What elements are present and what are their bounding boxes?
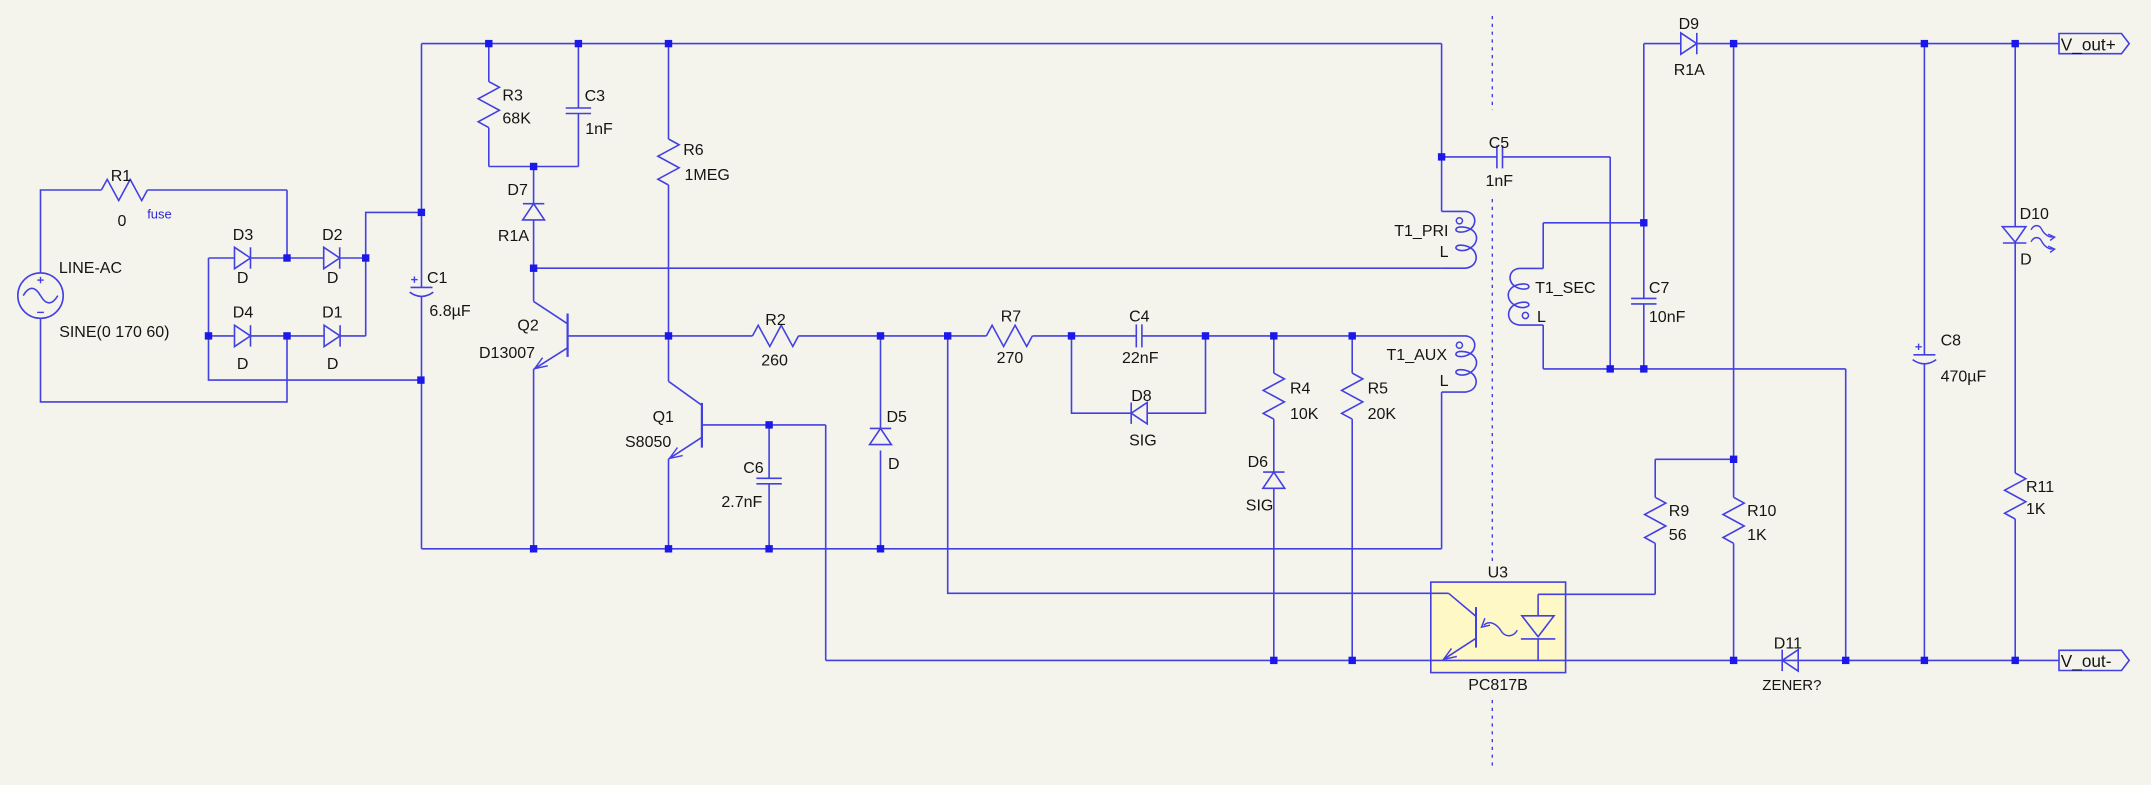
label LINE-AC bbox=[59, 260, 122, 277]
svg-text:1nF: 1nF bbox=[585, 121, 613, 138]
wire bridge bottom row bbox=[209, 335, 366, 337]
svg-text:1K: 1K bbox=[1747, 527, 1767, 544]
optocoupler U3 (PC817B) bbox=[1443, 593, 1555, 660]
label T1_AUX bbox=[1387, 347, 1448, 364]
wire C6 leads bbox=[768, 425, 770, 549]
wire Q1 emitter to ground bus bbox=[668, 459, 670, 549]
label R6 bbox=[683, 142, 704, 159]
svg-text:D10: D10 bbox=[2020, 206, 2049, 223]
label R3 value 68K bbox=[502, 111, 531, 128]
svg-text:22nF: 22nF bbox=[1122, 350, 1159, 367]
svg-text:R6: R6 bbox=[683, 142, 704, 159]
diode D1 bbox=[324, 325, 340, 346]
label R10 bbox=[1747, 503, 1776, 520]
inductor T1_AUX (aux winding) bbox=[1442, 336, 1477, 392]
wire feedback rail to V_out- bbox=[826, 659, 2059, 661]
diode D4 bbox=[235, 325, 251, 346]
wire C1 column bbox=[421, 44, 423, 549]
label D5 bbox=[887, 409, 908, 426]
wire R3 leads and R3/C3 bottom row bbox=[489, 44, 579, 167]
wire C3 leads bbox=[577, 44, 579, 167]
svg-text:SIG: SIG bbox=[1129, 433, 1157, 450]
label R5 value 20K bbox=[1368, 406, 1397, 423]
resistor R7 bbox=[986, 325, 1032, 346]
label D3 bbox=[233, 227, 254, 244]
optocoupler U3 body (PC817B) bbox=[1431, 582, 1566, 673]
wire Q2 base bbox=[568, 335, 669, 337]
svg-text:D7: D7 bbox=[507, 182, 528, 199]
wire V_out+ rail bbox=[1734, 43, 2059, 45]
label R9 bbox=[1669, 503, 1690, 520]
svg-text:R10: R10 bbox=[1747, 503, 1776, 520]
resistor R10 bbox=[1723, 497, 1744, 543]
label R2 value 260 bbox=[761, 353, 788, 370]
svg-text:R7: R7 bbox=[1001, 308, 1022, 325]
wire AC return: source bottom loop to bridge midpoint bbox=[41, 318, 288, 402]
wire Q2 emitter to ground bus bbox=[533, 369, 535, 549]
junction dots (wire T-connections) bbox=[205, 40, 2019, 664]
resistor R2 bbox=[753, 325, 799, 346]
label R6 value 1MEG bbox=[685, 167, 730, 184]
label R10 value 1K bbox=[1747, 527, 1767, 544]
svg-text:R4: R4 bbox=[1290, 380, 1311, 397]
label D2 value D bbox=[327, 270, 339, 287]
diode D6 bbox=[1263, 472, 1285, 488]
label C3 bbox=[585, 88, 606, 105]
wire snubber row to transformer primary bottom bbox=[534, 267, 1442, 269]
svg-text:D: D bbox=[2020, 252, 2032, 269]
wire opto LED anode link bbox=[1538, 593, 1655, 595]
svg-text:68K: 68K bbox=[502, 111, 531, 128]
wire D5 leads bbox=[880, 336, 882, 549]
svg-text:D2: D2 bbox=[322, 227, 343, 244]
label C4 value 22nF bbox=[1122, 350, 1159, 367]
svg-text:L: L bbox=[1440, 244, 1449, 261]
svg-text:6.8µF: 6.8µF bbox=[429, 303, 470, 320]
svg-text:D1: D1 bbox=[322, 305, 343, 322]
label C6 bbox=[743, 460, 764, 477]
label R11 bbox=[2026, 479, 2054, 496]
label T1_PRI value L bbox=[1440, 244, 1449, 261]
label D9 value R1A bbox=[1674, 62, 1705, 79]
svg-text:20K: 20K bbox=[1368, 406, 1397, 423]
resistor R5 bbox=[1342, 373, 1363, 419]
resistor R6 bbox=[658, 139, 679, 185]
label D10 value D bbox=[2020, 252, 2032, 269]
label D1 bbox=[322, 305, 343, 322]
wire top bus bbox=[422, 44, 1442, 212]
wire D8 bypass loop bbox=[1072, 336, 1206, 413]
label D4 bbox=[233, 305, 254, 322]
diode D8 bbox=[1131, 403, 1147, 424]
label R7 bbox=[1001, 308, 1022, 325]
label R1 value 0 bbox=[118, 213, 127, 230]
output port flag V_out- bbox=[2059, 650, 2129, 671]
label D5 value D bbox=[888, 456, 900, 473]
wire C7 leads bbox=[1643, 223, 1645, 369]
svg-text:D11: D11 bbox=[1774, 635, 1802, 652]
capacitor C8 (polarized) bbox=[1913, 344, 1937, 364]
wire R10 leads bbox=[1733, 459, 1735, 660]
wire R9 top link and leads bbox=[1655, 459, 1733, 594]
label Q1 value S8050 bbox=[625, 434, 671, 451]
label C3 value 1nF bbox=[585, 121, 613, 138]
svg-text:C8: C8 bbox=[1941, 332, 1962, 349]
svg-text:D5: D5 bbox=[887, 409, 908, 426]
label C7 bbox=[1649, 280, 1670, 297]
label Q2 value D13007 bbox=[479, 345, 535, 362]
label C8 bbox=[1941, 332, 1962, 349]
resistor R1 bbox=[101, 179, 147, 200]
svg-text:R1A: R1A bbox=[498, 228, 529, 245]
label C4 bbox=[1129, 308, 1150, 325]
wire bridge top row bbox=[209, 257, 366, 259]
wire C8 leads bbox=[1923, 44, 1925, 661]
svg-text:ZENER?: ZENER? bbox=[1762, 677, 1821, 694]
label C6 value 2.7nF bbox=[721, 494, 762, 511]
svg-text:R11: R11 bbox=[2026, 479, 2054, 496]
label T1_PRI bbox=[1394, 223, 1448, 240]
label D6 bbox=[1248, 454, 1269, 471]
inductor T1_SEC (secondary winding) bbox=[1508, 268, 1543, 325]
svg-text:D: D bbox=[888, 456, 900, 473]
svg-text:D6: D6 bbox=[1248, 454, 1269, 471]
LED D10 bbox=[2002, 226, 2054, 253]
wire R9/R10 top feed bbox=[1733, 44, 1735, 460]
label C1 value 6.8uF bbox=[429, 303, 470, 320]
label R9 value 56 bbox=[1669, 527, 1687, 544]
svg-text:2.7nF: 2.7nF bbox=[721, 494, 762, 511]
wire D7 leads bbox=[533, 167, 535, 269]
wire ground bus bbox=[422, 392, 1442, 549]
svg-text:SINE(0 170 60): SINE(0 170 60) bbox=[59, 324, 169, 341]
label D11 value ZENER? bbox=[1762, 677, 1821, 694]
svg-text:C5: C5 bbox=[1489, 135, 1510, 152]
diode D5 bbox=[870, 428, 892, 444]
diode D11 (zener feedback) bbox=[1782, 650, 1798, 671]
transistor Q1 bbox=[669, 381, 702, 459]
label D8 bbox=[1131, 388, 1152, 405]
svg-text:Q1: Q1 bbox=[653, 409, 674, 426]
wire secondary top row bbox=[1543, 223, 1644, 269]
transformer core dashed line (top segment) bbox=[1491, 16, 1493, 110]
svg-text:SIG: SIG bbox=[1246, 498, 1274, 515]
svg-text:T1_PRI: T1_PRI bbox=[1394, 223, 1448, 240]
label D7 value R1A bbox=[498, 228, 529, 245]
diode D2 bbox=[324, 247, 340, 268]
wire opto collector feed bbox=[948, 336, 1449, 593]
svg-text:470µF: 470µF bbox=[1941, 369, 1987, 386]
svg-text:10nF: 10nF bbox=[1649, 309, 1686, 326]
wire Q2 collector bbox=[533, 268, 535, 301]
svg-text:C4: C4 bbox=[1129, 308, 1150, 325]
svg-text:1MEG: 1MEG bbox=[685, 167, 730, 184]
label D4 value D bbox=[237, 356, 249, 373]
wire R5 leads bbox=[1351, 336, 1353, 661]
label C1 bbox=[427, 270, 448, 287]
svg-text:D4: D4 bbox=[233, 305, 254, 322]
svg-text:R5: R5 bbox=[1368, 380, 1389, 397]
wire AC live: source top to R1 to bridge bbox=[41, 190, 288, 273]
label D6 value SIG bbox=[1246, 498, 1274, 515]
resistor R9 bbox=[1645, 497, 1666, 543]
svg-text:1nF: 1nF bbox=[1486, 173, 1514, 190]
svg-text:10K: 10K bbox=[1290, 406, 1319, 423]
svg-text:R3: R3 bbox=[502, 88, 523, 105]
label T1_SEC value L bbox=[1537, 309, 1546, 326]
resistor R3 bbox=[478, 82, 499, 128]
svg-text:V_out+: V_out+ bbox=[2061, 34, 2116, 54]
label C5 value 1nF bbox=[1486, 173, 1514, 190]
label R7 value 270 bbox=[997, 350, 1024, 367]
svg-text:0: 0 bbox=[118, 213, 127, 230]
capacitor C1 (polarized) bbox=[410, 276, 434, 296]
label R11 value 1K bbox=[2026, 501, 2046, 518]
svg-text:D: D bbox=[237, 270, 249, 287]
svg-text:1K: 1K bbox=[2026, 501, 2046, 518]
svg-text:T1_SEC: T1_SEC bbox=[1535, 280, 1595, 297]
wire D9 riser and leads bbox=[1644, 44, 1734, 223]
svg-text:L: L bbox=[1537, 309, 1546, 326]
label D1 value D bbox=[327, 356, 339, 373]
svg-text:D: D bbox=[327, 356, 339, 373]
label Q1 bbox=[653, 409, 674, 426]
wire C5 row bbox=[1442, 157, 1611, 369]
wire R4 leads and D6 link bbox=[1273, 336, 1275, 661]
capacitor C4 bbox=[1136, 324, 1142, 347]
svg-text:C1: C1 bbox=[427, 270, 448, 287]
label U3 value PC817B bbox=[1468, 677, 1528, 694]
wire Q1 collector bbox=[668, 336, 670, 381]
svg-text:R9: R9 bbox=[1669, 503, 1690, 520]
svg-text:LINE-AC: LINE-AC bbox=[59, 260, 122, 277]
svg-text:D: D bbox=[237, 356, 249, 373]
label R4 value 10K bbox=[1290, 406, 1319, 423]
svg-text:R2: R2 bbox=[765, 312, 786, 329]
svg-text:C6: C6 bbox=[743, 460, 764, 477]
wire bridge left vertical and bottom to C1 bbox=[209, 258, 421, 380]
svg-text:L: L bbox=[1440, 373, 1449, 390]
output port flag V_out+ bbox=[2059, 34, 2129, 55]
capacitor C6 bbox=[756, 478, 781, 484]
label D9 bbox=[1679, 16, 1700, 33]
svg-text:U3: U3 bbox=[1488, 564, 1509, 581]
inductor T1_PRI (primary winding) bbox=[1442, 211, 1477, 268]
diode D9 bbox=[1681, 33, 1697, 54]
wire R6 leads bbox=[668, 44, 670, 336]
label R4 bbox=[1290, 380, 1311, 397]
svg-text:D: D bbox=[327, 270, 339, 287]
label SINE(0 170 60) bbox=[59, 324, 169, 341]
svg-text:56: 56 bbox=[1669, 527, 1687, 544]
svg-text:C7: C7 bbox=[1649, 280, 1670, 297]
label D8 value SIG bbox=[1129, 433, 1157, 450]
transformer core dashed line (middle segment) bbox=[1491, 199, 1493, 562]
wire bridge plus riser to C1 top bbox=[366, 212, 422, 336]
resistor R11 bbox=[2005, 473, 2026, 519]
svg-text:260: 260 bbox=[761, 353, 788, 370]
label D10 bbox=[2020, 206, 2049, 223]
label C7 value 10nF bbox=[1649, 309, 1686, 326]
svg-text:PC817B: PC817B bbox=[1468, 677, 1528, 694]
capacitor C5 bbox=[1497, 145, 1503, 168]
label R5 bbox=[1368, 380, 1389, 397]
label D3 value D bbox=[237, 270, 249, 287]
svg-text:D3: D3 bbox=[233, 227, 254, 244]
label D11 bbox=[1774, 635, 1802, 652]
svg-text:270: 270 bbox=[997, 350, 1024, 367]
wire main feedback row bbox=[669, 335, 1442, 337]
label T1_AUX value L bbox=[1440, 373, 1449, 390]
svg-text:fuse: fuse bbox=[147, 206, 172, 221]
capacitor C3 bbox=[566, 108, 591, 114]
svg-text:D13007: D13007 bbox=[479, 345, 535, 362]
label R3 bbox=[502, 88, 523, 105]
label D7 bbox=[507, 182, 528, 199]
svg-text:S8050: S8050 bbox=[625, 434, 671, 451]
label R1 bbox=[111, 168, 132, 185]
svg-text:C3: C3 bbox=[585, 88, 606, 105]
wire Q1 base row bbox=[702, 424, 826, 426]
net label fuse bbox=[147, 206, 172, 221]
svg-text:D9: D9 bbox=[1679, 16, 1700, 33]
svg-text:T1_AUX: T1_AUX bbox=[1387, 347, 1448, 364]
capacitor C7 bbox=[1631, 298, 1656, 304]
label U3 bbox=[1488, 564, 1509, 581]
label T1_SEC bbox=[1535, 280, 1595, 297]
svg-text:Q2: Q2 bbox=[517, 317, 538, 334]
wire Q1 base feedback drop bbox=[825, 425, 827, 661]
svg-text:V_out-: V_out- bbox=[2061, 651, 2112, 671]
wire D10/R11 leads bbox=[2014, 44, 2016, 661]
voltage source V1 LINE-AC bbox=[18, 273, 63, 318]
label R2 bbox=[765, 312, 786, 329]
diode D7 bbox=[523, 204, 545, 220]
resistor R4 bbox=[1263, 373, 1284, 419]
wire secondary bottom row bbox=[1543, 325, 1846, 660]
label C5 bbox=[1489, 135, 1510, 152]
diode D3 bbox=[235, 247, 251, 268]
label D2 bbox=[322, 227, 343, 244]
svg-text:D8: D8 bbox=[1131, 388, 1152, 405]
transformer core dashed line (bottom segment) bbox=[1491, 700, 1493, 770]
svg-text:R1A: R1A bbox=[1674, 62, 1705, 79]
transistor Q2 bbox=[534, 301, 568, 369]
label Q2 bbox=[517, 317, 538, 334]
svg-text:R1: R1 bbox=[111, 168, 132, 185]
label C8 value 470uF bbox=[1941, 369, 1987, 386]
